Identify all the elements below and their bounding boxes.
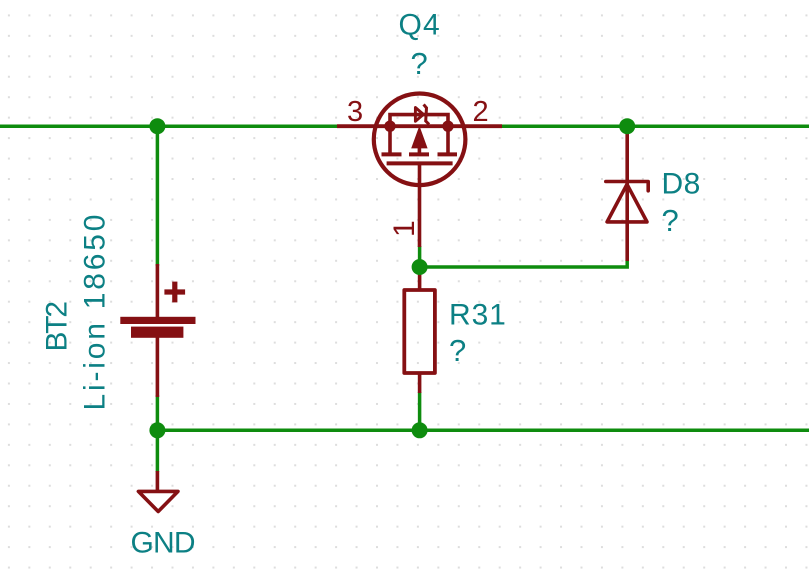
pin number 2: [473, 96, 489, 128]
diode D8: [606, 131, 648, 261]
node A junction: [412, 259, 428, 275]
svg-text:R31: R31: [449, 299, 507, 332]
label D8: [662, 168, 701, 201]
label R31 value: [449, 333, 466, 368]
junction R31 bottom: [412, 422, 428, 438]
junction D8 top: [619, 118, 635, 134]
svg-text:D8: D8: [662, 168, 701, 201]
ground: [138, 471, 178, 512]
wire R31 bottom: [418, 392, 422, 430]
label BT2: [41, 302, 74, 352]
svg-text:2: 2: [473, 96, 489, 128]
wire battery top: [156, 126, 160, 266]
transistor Q4: [337, 94, 502, 248]
junction top-left: [149, 118, 165, 134]
wire Q4 gate to node: [418, 246, 422, 268]
label Q4: [399, 9, 441, 42]
svg-text:?: ?: [662, 203, 679, 238]
label R31: [449, 299, 507, 332]
svg-text:Li-ion 18650: Li-ion 18650: [78, 212, 111, 411]
wire to ground: [156, 430, 160, 472]
pin number 1: [388, 220, 421, 237]
wire top-right segment: [495, 124, 809, 128]
svg-text:?: ?: [411, 46, 428, 81]
label GND: [131, 527, 195, 560]
wire bottom rail: [157, 428, 809, 432]
label BT2 value: [78, 212, 111, 411]
svg-text:?: ?: [449, 333, 466, 368]
battery BT2: [120, 264, 195, 397]
pin number 3: [347, 96, 363, 128]
svg-text:BT2: BT2: [41, 302, 74, 352]
wire top-left segment: [0, 124, 345, 128]
resistor R31: [404, 267, 435, 393]
label Q4 value: [411, 46, 428, 81]
svg-text:1: 1: [388, 220, 421, 237]
junction battery bottom: [149, 422, 165, 438]
label D8 value: [662, 203, 679, 238]
svg-text:3: 3: [347, 96, 363, 128]
wire node to D8: [420, 260, 628, 267]
svg-text:GND: GND: [131, 527, 195, 560]
svg-text:Q4: Q4: [399, 9, 441, 42]
wire battery bottom: [156, 395, 160, 430]
